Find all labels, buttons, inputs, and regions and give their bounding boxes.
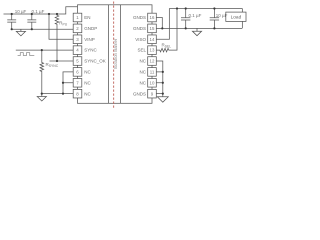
svg-text:GNDS: GNDS: [133, 15, 146, 20]
junction dots: [11, 7, 216, 94]
wire VINP riser: [49, 14, 73, 39]
svg-text:NC: NC: [84, 70, 91, 75]
wire NC bus right: [156, 61, 163, 94]
wire VISO rail: [169, 8, 242, 10]
pin box 5: [73, 57, 82, 66]
pin box 16: [148, 13, 157, 22]
pin boxes: [73, 13, 156, 98]
ground input: [16, 29, 25, 36]
capacitor C3 0.1uF: [181, 9, 190, 29]
pin box 13: [148, 46, 157, 55]
pin box 10: [148, 78, 157, 87]
svg-text:10 µF: 10 µF: [216, 13, 228, 18]
resistor R_PU: [55, 14, 59, 61]
pin numbers: [76, 15, 155, 96]
capacitor C1 10uF: [7, 14, 16, 29]
wire SYNC_OK: [50, 60, 74, 62]
pin box 7: [73, 78, 82, 87]
svg-text:0.1 µF: 0.1 µF: [32, 9, 45, 14]
wire NC bus left: [42, 72, 73, 94]
pin box 12: [148, 57, 157, 66]
svg-text:12: 12: [150, 59, 155, 64]
capacitor C4 10uF: [210, 9, 219, 29]
svg-text:Load: Load: [231, 14, 242, 20]
svg-text:13: 13: [150, 48, 155, 53]
capacitor C2 0.1uF: [27, 14, 36, 29]
svg-text:NC: NC: [140, 59, 147, 64]
svg-text:NC: NC: [140, 70, 147, 75]
ground output mid: [192, 28, 201, 35]
pin box 6: [73, 68, 82, 77]
svg-text:GNDS: GNDS: [133, 91, 146, 96]
pin box 4: [73, 46, 82, 55]
wire input rail VINP: [4, 7, 78, 14]
resistor R_SYNC: [40, 50, 44, 94]
pin box 1: [73, 13, 82, 22]
wire VISO riser pin14: [156, 9, 169, 40]
svg-text:NC: NC: [84, 91, 91, 96]
svg-text:NC: NC: [140, 80, 147, 85]
svg-text:GNDS: GNDS: [133, 26, 146, 31]
value labels: [15, 9, 228, 68]
svg-text:15: 15: [150, 26, 155, 31]
ground right bottom: [157, 94, 168, 103]
pin labels right: [133, 15, 147, 96]
pin box 15: [148, 24, 157, 33]
svg-text:16: 16: [150, 15, 155, 20]
svg-text:RSEL: RSEL: [162, 43, 172, 49]
ground left bottom: [37, 94, 46, 101]
pin box 2: [73, 24, 82, 33]
svg-text:14: 14: [150, 37, 155, 42]
square wave clock glyph: [18, 53, 35, 56]
isolation banner lines: [109, 5, 121, 104]
svg-text:NC: NC: [84, 80, 91, 85]
svg-text:SEL: SEL: [137, 48, 146, 53]
pin box 11: [148, 68, 157, 77]
pin box 9: [148, 89, 157, 98]
load connection wires: [241, 9, 243, 29]
svg-text:RSYNC: RSYNC: [46, 62, 59, 68]
svg-text:10 µF: 10 µF: [15, 9, 27, 14]
svg-text:EN: EN: [84, 15, 90, 20]
pin box 3: [73, 35, 82, 44]
svg-text:GNDP: GNDP: [84, 26, 97, 31]
wire SYNC: [16, 49, 73, 51]
svg-text:11: 11: [150, 70, 155, 75]
isolation barrier red dashed line: [113, 2, 115, 110]
svg-text:Isolation Barrier: Isolation Barrier: [113, 38, 118, 69]
svg-text:SYNC: SYNC: [84, 48, 97, 53]
wire pin16 branch: [156, 18, 162, 29]
svg-text:SYNC_OK: SYNC_OK: [84, 59, 106, 64]
svg-text:VISO: VISO: [135, 37, 146, 42]
pin box 8: [73, 89, 82, 98]
svg-text:VINP: VINP: [84, 37, 95, 42]
wire GNDS rail: [156, 27, 242, 29]
pin box 14: [148, 35, 157, 44]
svg-text:10: 10: [150, 80, 155, 85]
IC body outline U1: [78, 5, 153, 104]
wire GNDP: [12, 28, 73, 30]
load box: [226, 12, 246, 21]
svg-text:RPU: RPU: [59, 21, 68, 27]
svg-text:0.1 µF: 0.1 µF: [189, 13, 202, 18]
resistor R_SEL: [156, 9, 177, 52]
pin labels left: [84, 15, 106, 96]
